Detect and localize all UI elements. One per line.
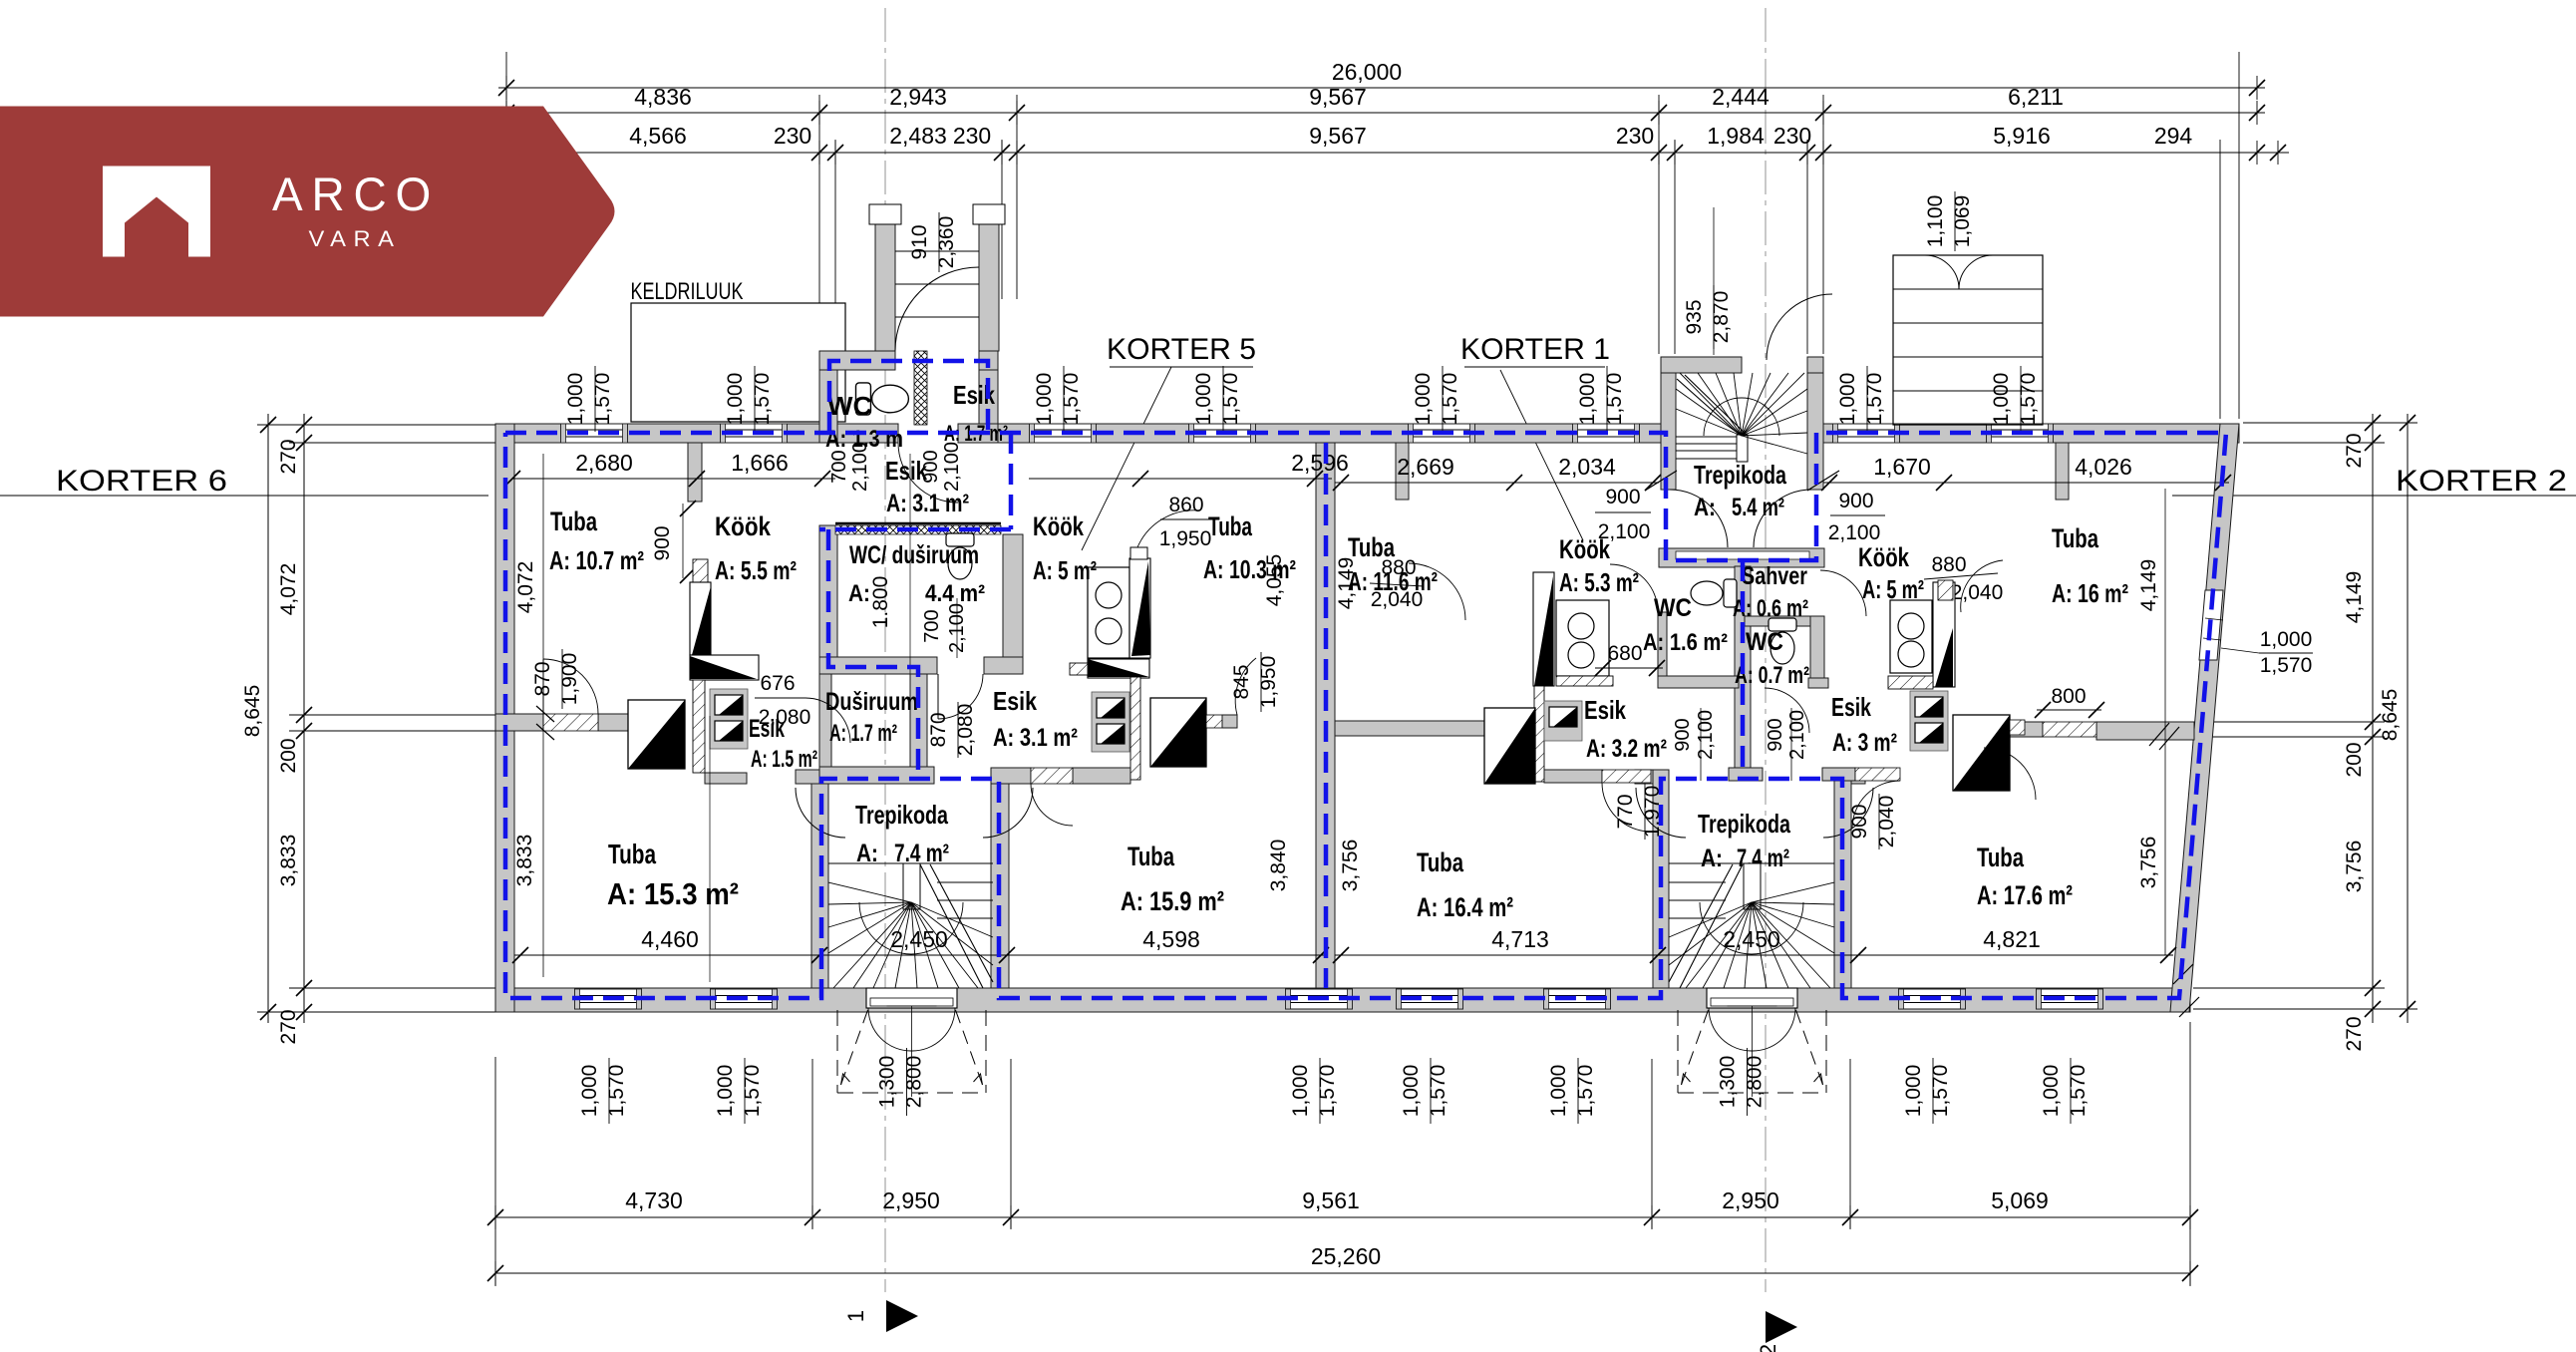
svg-text:700: 700 — [921, 609, 943, 642]
svg-text:3,756: 3,756 — [1339, 840, 1362, 892]
insulation band — [835, 525, 1001, 534]
vestibule1 insulation strip — [914, 351, 927, 425]
svg-text:870: 870 — [927, 712, 950, 747]
svg-text:2,040: 2,040 — [1371, 588, 1424, 611]
svg-text:200: 200 — [277, 738, 300, 773]
svg-text:A: 3 m²: A: 3 m² — [1832, 729, 1897, 757]
svg-text:4,055: 4,055 — [1263, 554, 1286, 607]
entry canopy dashed outline — [836, 1010, 838, 1093]
svg-text:4,072: 4,072 — [514, 561, 537, 614]
dim row2 4,836|2,943|9,567|2,444|6,211 — [498, 112, 2265, 114]
k1 stove — [1556, 600, 1609, 676]
mc2 bottom foot — [1729, 768, 1763, 781]
svg-text:A: 5.5 m²: A: 5.5 m² — [715, 555, 797, 585]
svg-text:2,943: 2,943 — [889, 84, 947, 110]
svg-text:4,598: 4,598 — [1142, 926, 1200, 952]
svg-text:A:: A: — [1701, 845, 1723, 872]
svg-text:4,072: 4,072 — [277, 563, 300, 616]
svg-text:2,450: 2,450 — [1723, 926, 1780, 952]
svg-text:1,570: 1,570 — [1060, 373, 1083, 426]
svg-text:A:: A: — [848, 580, 870, 607]
svg-text:A: 5 m²: A: 5 m² — [1033, 555, 1097, 585]
blue party wall — [1324, 443, 1329, 988]
svg-text:1,000: 1,000 — [1192, 373, 1215, 426]
toilet wc-right — [1769, 618, 1796, 664]
k2 partition stub — [2056, 443, 2069, 500]
storage double doors — [1925, 255, 1959, 289]
k5 hatch stub — [1070, 663, 1088, 675]
svg-text:1,570: 1,570 — [1219, 373, 1242, 426]
k2 tuba arc door — [1984, 748, 2036, 800]
svg-text:1,300: 1,300 — [876, 1056, 899, 1109]
svg-text:4,566: 4,566 — [629, 123, 687, 149]
svg-text:A: 1.6 m²: A: 1.6 m² — [1643, 629, 1728, 656]
svg-text:1,000: 1,000 — [1033, 373, 1056, 426]
k1 partition stub — [1396, 443, 1409, 500]
svg-text:A: 3.1 m²: A: 3.1 m² — [993, 724, 1078, 752]
svg-text:2: 2 — [1756, 1344, 1780, 1352]
svg-text:1,570: 1,570 — [1316, 1065, 1339, 1118]
esik31 entry arc — [898, 443, 958, 503]
svg-text:1,000: 1,000 — [1547, 1065, 1570, 1118]
svg-text:1,984: 1,984 — [1707, 123, 1765, 149]
svg-text:2,950: 2,950 — [882, 1187, 940, 1213]
svg-text:1,570: 1,570 — [1574, 1065, 1597, 1118]
svg-text:900: 900 — [920, 450, 942, 483]
interior top dims k5 — [1029, 478, 1332, 480]
canopy arrows — [1682, 1074, 1691, 1085]
trep2 door arc (top) — [1767, 294, 1832, 360]
svg-text:2,080: 2,080 — [954, 704, 977, 757]
svg-text:1,570: 1,570 — [1439, 373, 1461, 426]
k5 washer block — [1092, 692, 1129, 752]
svg-text:4,149: 4,149 — [1335, 557, 1358, 610]
svg-text:1,000: 1,000 — [1576, 373, 1599, 426]
interior bottom dims right — [1335, 954, 2173, 956]
mid-wall door opening hatches — [543, 714, 598, 731]
k2 door stubs + 800 opening — [2010, 720, 2025, 735]
svg-text:2,360: 2,360 — [935, 216, 958, 269]
svg-text:9,567: 9,567 — [1309, 84, 1367, 110]
svg-text:Köök: Köök — [1858, 542, 1910, 572]
svg-text:2,950: 2,950 — [1722, 1187, 1779, 1213]
svg-text:230: 230 — [1616, 123, 1654, 149]
svg-text:1,570: 1,570 — [591, 373, 614, 426]
svg-text:910: 910 — [908, 224, 931, 259]
svg-text:4.4 m²: 4.4 m² — [925, 580, 985, 607]
mc2 wc-right walls — [1745, 616, 1823, 626]
main wall under vestibule with door gap — [837, 424, 898, 443]
svg-text:WC: WC — [1746, 628, 1783, 656]
svg-text:3,756: 3,756 — [2137, 837, 2160, 889]
svg-text:6,211: 6,211 — [2008, 84, 2064, 110]
svg-text:770: 770 — [1614, 794, 1637, 829]
svg-text:Tuba: Tuba — [1977, 843, 2025, 872]
svg-text:1,950: 1,950 — [1159, 527, 1212, 550]
svg-text:2,800: 2,800 — [903, 1056, 926, 1109]
left outer wall — [495, 424, 514, 1012]
k1 esik bottom band — [1544, 770, 1602, 783]
porch left wall — [875, 212, 895, 351]
svg-text:1,570: 1,570 — [1427, 1065, 1449, 1118]
svg-text:2,100: 2,100 — [946, 603, 968, 653]
k6 partition wall stub — [688, 443, 702, 502]
svg-text:870: 870 — [531, 661, 554, 696]
svg-text:270: 270 — [277, 1009, 300, 1044]
svg-text:1,666: 1,666 — [731, 450, 789, 476]
svg-text:1,570: 1,570 — [1929, 1065, 1952, 1118]
dusiruum right wall — [910, 674, 927, 780]
party wall korter5/korter1 — [1316, 443, 1335, 988]
svg-text:A: 3.2 m²: A: 3.2 m² — [1586, 735, 1667, 763]
svg-text:Köök: Köök — [715, 511, 772, 541]
k1 washer block — [1544, 701, 1582, 741]
k1 counter hatch base — [1556, 676, 1613, 686]
interior top dims k2 — [1823, 482, 2229, 484]
svg-text:2,450: 2,450 — [890, 926, 948, 952]
k1 door hatch strip — [1534, 686, 1544, 782]
svg-text:2,100: 2,100 — [1786, 710, 1808, 760]
svg-text:A: 0.7 m²: A: 0.7 m² — [1735, 662, 1809, 689]
svg-text:270: 270 — [277, 439, 300, 474]
svg-text:1,000: 1,000 — [1412, 373, 1435, 426]
extension line mid-wall tuba15.3 — [709, 716, 711, 982]
svg-text:2,669: 2,669 — [1397, 454, 1454, 480]
svg-text:2,444: 2,444 — [1712, 84, 1770, 110]
k5 stove — [1088, 567, 1129, 658]
logo house icon — [103, 167, 210, 257]
bottom dim total 25,260 — [495, 1272, 2190, 1274]
trep2 corner ticks — [1645, 471, 1677, 491]
svg-text:Esik: Esik — [1584, 695, 1626, 725]
dusiruum door arc — [805, 698, 850, 743]
k5 fridge — [1150, 698, 1206, 767]
svg-text:WC/ duširuum: WC/ duširuum — [849, 541, 979, 569]
svg-text:230: 230 — [1773, 123, 1811, 149]
right dim stack 270/4,149/200/3,756/270 + 8,645 — [2372, 414, 2374, 1023]
k6 door hatch strip — [693, 680, 705, 773]
svg-text:Trepikoda: Trepikoda — [855, 800, 948, 830]
svg-text:1,570: 1,570 — [2260, 654, 2313, 677]
top wall windows — [561, 424, 628, 443]
stair2 left wall — [1653, 770, 1669, 988]
svg-text:A:: A: — [1694, 494, 1716, 521]
k2 counter hatch base — [1888, 676, 1933, 689]
svg-text:A: 5.3 m²: A: 5.3 m² — [1559, 567, 1639, 597]
stair2 door arcs at top — [1636, 788, 1686, 838]
svg-text:KORTER 1: KORTER 1 — [1460, 333, 1610, 366]
insulation band top line — [835, 522, 1001, 525]
entry canopy dashed outline — [1677, 1010, 1679, 1093]
storage shelf box — [1893, 255, 2043, 425]
svg-text:2,080: 2,080 — [759, 706, 811, 729]
block right wall — [1003, 534, 1023, 674]
k5 door hatch strip — [1130, 677, 1140, 780]
svg-text:845: 845 — [1230, 664, 1253, 699]
entry door swing arcs — [1709, 1008, 1753, 1051]
svg-text:Esik: Esik — [1831, 692, 1871, 722]
svg-text:8,645: 8,645 — [241, 685, 264, 738]
svg-text:1,000: 1,000 — [2260, 628, 2313, 651]
svg-text:230: 230 — [953, 123, 991, 149]
canopy arrows — [841, 1074, 850, 1085]
stair1 top band — [796, 770, 828, 784]
svg-text:2,800: 2,800 — [1744, 1056, 1767, 1109]
k2 entry arc — [1852, 781, 1900, 829]
svg-text:2,100: 2,100 — [849, 442, 871, 492]
svg-text:Tuba: Tuba — [550, 507, 598, 536]
svg-text:2,040: 2,040 — [1951, 581, 2004, 604]
trep2 right wall — [1807, 357, 1823, 490]
svg-text:1,300: 1,300 — [1717, 1056, 1740, 1109]
svg-text:4,821: 4,821 — [1983, 926, 2041, 952]
svg-text:2,034: 2,034 — [1558, 454, 1616, 480]
svg-text:2,870: 2,870 — [1710, 291, 1733, 344]
svg-text:KORTER 2: KORTER 2 — [2396, 465, 2567, 498]
svg-text:Tuba: Tuba — [2052, 523, 2099, 553]
toilet in vestibule WC — [856, 383, 909, 415]
svg-text:9,567: 9,567 — [1309, 123, 1367, 149]
svg-text:Esik: Esik — [993, 686, 1037, 716]
svg-text:Duširuum: Duširuum — [825, 688, 918, 716]
svg-text:1: 1 — [843, 1310, 868, 1322]
svg-text:1,000: 1,000 — [578, 1065, 601, 1118]
svg-text:900: 900 — [1838, 490, 1873, 512]
svg-text:WC: WC — [827, 391, 872, 421]
svg-text:230: 230 — [774, 123, 811, 149]
k6 fridge — [628, 700, 685, 769]
svg-text:A: 16 m²: A: 16 m² — [2052, 578, 2128, 608]
svg-text:A: 10.7 m²: A: 10.7 m² — [549, 545, 644, 575]
svg-text:880: 880 — [1931, 553, 1966, 576]
k5 counter cap door leaf — [1130, 547, 1147, 559]
svg-text:Tuba: Tuba — [1417, 847, 1464, 877]
blue envelope main loop — [505, 433, 2226, 998]
svg-text:1,000: 1,000 — [714, 1065, 737, 1118]
interior top dims k1 — [1335, 482, 1659, 484]
svg-text:5,069: 5,069 — [1991, 1187, 2049, 1213]
trep2 winder stairs — [1737, 435, 1748, 462]
porch right wall — [979, 212, 999, 351]
toilet wc-left — [1691, 579, 1737, 607]
svg-text:2,680: 2,680 — [575, 450, 633, 476]
centerline axis 2 — [1765, 8, 1767, 1292]
svg-text:ARCO: ARCO — [272, 168, 440, 220]
svg-text:5,916: 5,916 — [1993, 123, 2051, 149]
svg-text:Köök: Köök — [1033, 511, 1085, 541]
svg-text:Trepikoda: Trepikoda — [1698, 809, 1790, 839]
svg-text:A: 3.1 m²: A: 3.1 m² — [886, 490, 969, 517]
k6 washer block — [710, 689, 748, 749]
trep2 lower door arcs — [1670, 490, 1728, 547]
svg-text:880: 880 — [1381, 556, 1416, 579]
svg-text:676: 676 — [760, 672, 795, 695]
svg-text:A: 17.6 m²: A: 17.6 m² — [1977, 880, 2073, 910]
extension line — [909, 454, 911, 768]
k5 mid band walls — [991, 768, 1031, 784]
mid-wall stub ticks — [536, 706, 554, 722]
porch steps — [895, 250, 979, 252]
k2 fridge — [1953, 715, 2010, 791]
bottom outer wall — [495, 988, 2190, 1012]
stair1 left wall — [811, 770, 828, 988]
centerline axis 1 — [884, 8, 886, 1292]
svg-text:4,836: 4,836 — [634, 84, 692, 110]
stair2 right wall — [1834, 770, 1851, 988]
svg-text:4,713: 4,713 — [1491, 926, 1549, 952]
dim row 26,000 — [498, 87, 2265, 89]
svg-text:680: 680 — [1607, 642, 1642, 665]
k5 tall counter — [1129, 558, 1150, 658]
svg-text:2,040: 2,040 — [1875, 796, 1898, 848]
svg-text:KELDRILUUK: KELDRILUUK — [631, 278, 744, 305]
stair2 winder — [1669, 862, 1834, 864]
porch door arc — [895, 267, 979, 351]
svg-text:A: 1.7 m²: A: 1.7 m² — [829, 720, 897, 747]
k2 stove — [1890, 600, 1932, 673]
vestibule1 left wall — [819, 351, 837, 443]
svg-text:270: 270 — [2343, 1016, 2366, 1051]
entry door threshold — [1707, 988, 1797, 1008]
svg-text:2,596: 2,596 — [1291, 450, 1349, 476]
logo banner — [0, 107, 615, 317]
svg-text:1,000: 1,000 — [1289, 1065, 1312, 1118]
svg-text:1,570: 1,570 — [1863, 373, 1886, 426]
entry door swing arcs — [868, 1008, 912, 1051]
interior top dims k6 — [512, 478, 835, 480]
top outer wall segments with windows — [495, 424, 819, 443]
svg-text:26,000: 26,000 — [1332, 59, 1402, 85]
svg-text:Köök: Köök — [1559, 534, 1611, 564]
svg-text:Sahver: Sahver — [1742, 562, 1807, 590]
k6 kitchen tall counter — [690, 582, 711, 655]
k1 fridge — [1484, 708, 1535, 784]
vestibule1 right wall — [979, 351, 998, 443]
svg-text:4,026: 4,026 — [2075, 454, 2132, 480]
block bottom band — [819, 657, 937, 674]
k6 mid-wall door arc — [542, 659, 544, 714]
svg-text:A: 15.3 m²: A: 15.3 m² — [607, 876, 739, 911]
k6 esik bottom band — [705, 773, 747, 784]
svg-text:3,756: 3,756 — [2343, 841, 2366, 893]
svg-text:200: 200 — [2343, 742, 2366, 777]
svg-text:KORTER 6: KORTER 6 — [56, 465, 227, 498]
middle horizontal wall segments — [495, 714, 543, 731]
stair2 top band — [1635, 770, 1653, 784]
right slanted outer wall — [2170, 424, 2239, 1012]
svg-text:1,570: 1,570 — [741, 1065, 764, 1118]
svg-text:4,149: 4,149 — [2343, 571, 2366, 624]
svg-text:270: 270 — [2343, 433, 2366, 468]
svg-text:1,000: 1,000 — [1400, 1065, 1423, 1118]
svg-text:8,645: 8,645 — [2379, 689, 2402, 742]
svg-text:935: 935 — [1683, 299, 1706, 334]
svg-text:Tuba: Tuba — [1208, 511, 1253, 541]
svg-text:A: 16.4 m²: A: 16.4 m² — [1417, 892, 1513, 922]
svg-text:Tuba: Tuba — [1127, 842, 1175, 871]
svg-text:2,100: 2,100 — [1695, 710, 1717, 760]
svg-text:1,069: 1,069 — [1951, 195, 1974, 248]
svg-text:1,570: 1,570 — [605, 1065, 628, 1118]
section marker 2 — [1766, 1311, 1797, 1343]
svg-text:1,570: 1,570 — [2067, 1065, 2090, 1118]
svg-text:VARA: VARA — [309, 226, 402, 251]
svg-text:3,833: 3,833 — [277, 835, 300, 887]
svg-text:A: 1.5 m²: A: 1.5 m² — [751, 746, 817, 773]
svg-text:1,950: 1,950 — [1257, 656, 1280, 709]
svg-text:1,570: 1,570 — [1603, 373, 1626, 426]
svg-text:294: 294 — [2154, 123, 2193, 149]
svg-text:WC: WC — [1654, 594, 1692, 622]
svg-text:Trepikoda: Trepikoda — [1694, 460, 1786, 490]
svg-text:860: 860 — [1168, 494, 1203, 516]
svg-text:3,833: 3,833 — [513, 835, 536, 887]
k2 esik bottom stub — [1822, 768, 1855, 781]
svg-text:4,149: 4,149 — [2137, 559, 2160, 612]
dusiruum left wall — [819, 674, 831, 784]
mc2 door arcs — [1820, 570, 1866, 616]
svg-text:4,730: 4,730 — [625, 1187, 683, 1213]
trep2 bottom band — [1659, 548, 1824, 567]
blue vestibule1 loop — [829, 361, 988, 433]
mc2 wc-left walls — [1658, 612, 1667, 679]
svg-text:1,000: 1,000 — [1836, 373, 1859, 426]
svg-text:1,000: 1,000 — [1902, 1065, 1925, 1118]
interior bottom dims left — [514, 954, 1326, 956]
stair1 door arcs at top — [796, 788, 845, 838]
stair1 winder — [828, 862, 993, 864]
right corner ticks — [2173, 964, 2193, 984]
k1 tall counter — [1533, 572, 1554, 686]
dim row3 4,566|230|2,483|230|9,567|230|1,984|230|5,916|294 — [498, 152, 2289, 154]
mc2 central wall — [1735, 566, 1751, 780]
entry door threshold — [866, 988, 957, 1008]
svg-text:1,570: 1,570 — [751, 373, 774, 426]
svg-text:800: 800 — [2051, 685, 2086, 708]
trep2 left wall — [1661, 357, 1676, 490]
svg-text:900: 900 — [1848, 804, 1871, 839]
trep2 top wall — [1661, 357, 1742, 373]
svg-text:900: 900 — [1605, 486, 1640, 508]
svg-text:2,483: 2,483 — [889, 123, 947, 149]
svg-text:25,260: 25,260 — [1311, 1243, 1381, 1269]
svg-text:900: 900 — [1765, 718, 1786, 751]
svg-text:1,570: 1,570 — [2017, 373, 2040, 426]
right slant window — [2199, 590, 2223, 660]
svg-text:2,100: 2,100 — [1828, 521, 1881, 544]
blue mid column2 — [1741, 560, 1746, 779]
k6 kitchen hatch cap — [693, 559, 708, 582]
svg-text:1.800: 1.800 — [869, 576, 892, 629]
svg-text:1,670: 1,670 — [1873, 454, 1931, 480]
dusiruum bottom band — [819, 767, 934, 784]
svg-text:900: 900 — [1672, 718, 1694, 751]
svg-text:1,000: 1,000 — [564, 373, 587, 426]
svg-text:1,000: 1,000 — [724, 373, 747, 426]
block left wall — [819, 525, 837, 674]
svg-text:1,100: 1,100 — [1924, 195, 1947, 248]
bottom wall windows — [575, 989, 642, 1009]
svg-text:9,561: 9,561 — [1302, 1187, 1360, 1213]
porch wall caps — [869, 204, 901, 224]
bottom dim row 4,730|2,950|9,561|2,950|5,069 — [495, 1216, 2190, 1218]
k1 entry arc — [1602, 783, 1651, 832]
svg-text:A: 15.9 m²: A: 15.9 m² — [1121, 886, 1224, 916]
k2 washer block — [1910, 691, 1948, 751]
svg-text:900: 900 — [651, 525, 674, 560]
k2 counter cap — [1938, 580, 1953, 600]
svg-text:2,100: 2,100 — [941, 442, 963, 492]
